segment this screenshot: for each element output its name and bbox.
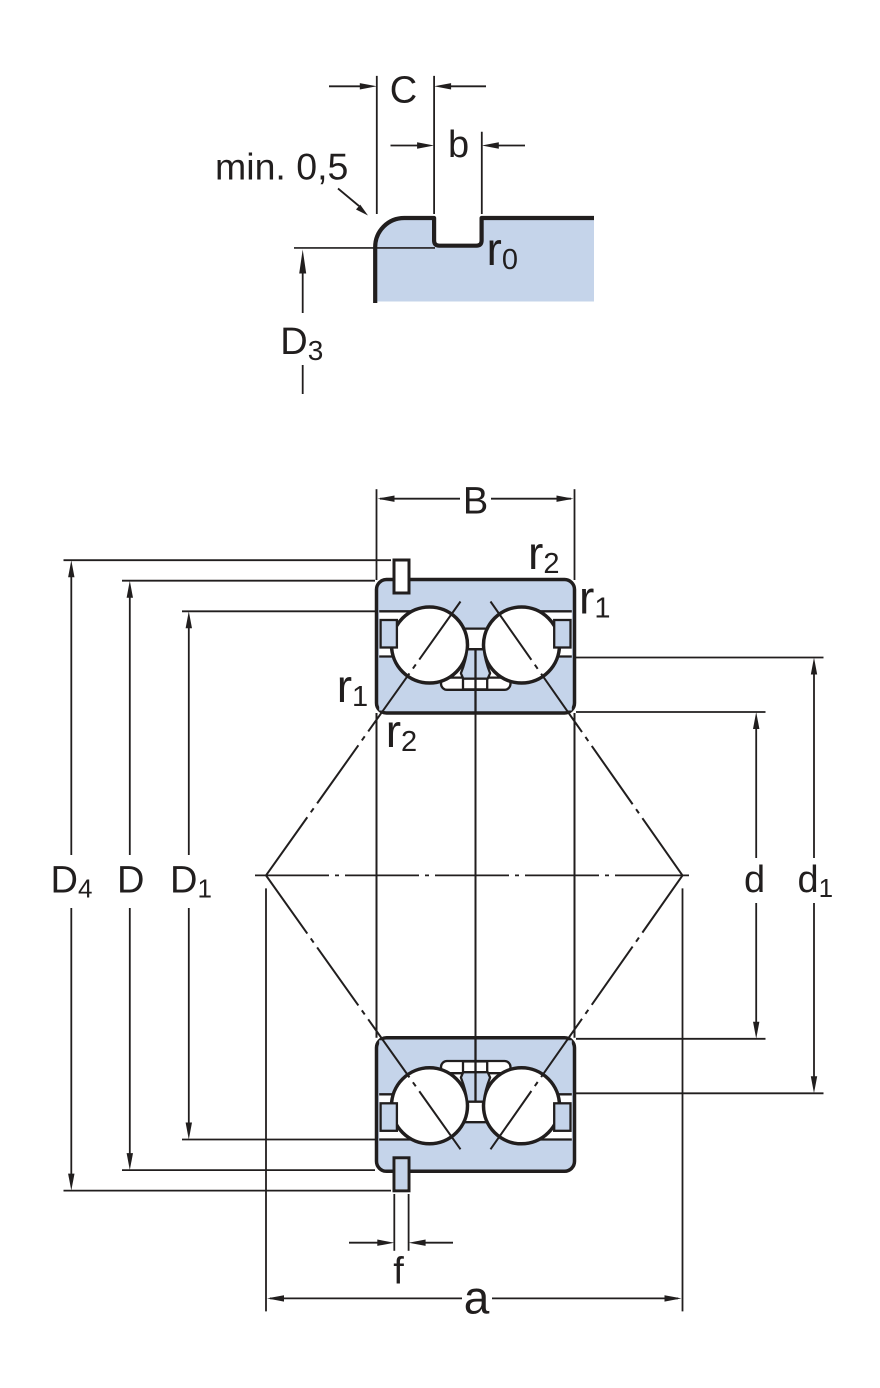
dimension d1 [811, 658, 817, 675]
dimension b arrows [391, 145, 420, 147]
dimension D [127, 581, 133, 598]
top bearing section [377, 560, 575, 713]
b extension line right [481, 132, 483, 214]
contact angle line bottom-left [266, 875, 461, 1149]
bore-side vertical line right [574, 713, 576, 1038]
svg-text:B: B [463, 481, 488, 523]
dimension C arrows [329, 85, 361, 87]
d1 extension lines [576, 657, 824, 659]
svg-text:a: a [464, 1272, 490, 1324]
dimension B [376, 489, 378, 580]
dimension f [393, 1194, 395, 1251]
D3 level line [294, 247, 435, 249]
dimension D4 [68, 560, 74, 577]
dimension d [753, 712, 759, 729]
dimension D1 [186, 611, 192, 628]
D extension lines [122, 580, 375, 582]
ring cross-section fill [375, 218, 594, 302]
C extension line right [433, 76, 435, 214]
leader arrow min 0,5 [338, 189, 359, 207]
svg-text:f: f [393, 1251, 404, 1293]
svg-text:C: C [390, 70, 417, 112]
centre plane vertical line [475, 713, 477, 1038]
D1 extension lines [182, 610, 375, 612]
D4 extension lines [64, 559, 392, 561]
bore-side vertical line left [376, 713, 378, 1038]
svg-text:d: d [744, 859, 765, 901]
svg-text:b: b [448, 124, 469, 166]
svg-text:min. 0,5: min. 0,5 [215, 146, 348, 188]
horizontal axis centerline [255, 874, 692, 876]
C extension line left [376, 76, 378, 214]
contact angle line top-left [266, 602, 461, 876]
d extension lines [576, 711, 766, 713]
dimension D3 [299, 250, 306, 274]
contact angle line top-right [491, 602, 683, 876]
bottom bearing section (mirrored) [377, 1038, 575, 1191]
svg-text:D: D [117, 860, 144, 902]
ring cross-section outline [375, 218, 594, 303]
bottom tab blue fill [396, 1160, 407, 1190]
contact angle line bottom-right [491, 875, 683, 1149]
dimension a [265, 888, 267, 1311]
